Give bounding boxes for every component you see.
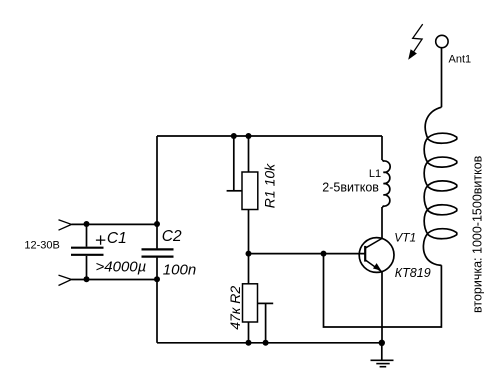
svg-text:L1: L1	[369, 168, 381, 180]
lightning bolt	[411, 24, 423, 56]
capacitor C1 bottom plate	[71, 254, 104, 256]
wire antenna lead	[441, 48, 443, 107]
inductor L1	[382, 160, 390, 207]
transistor VT1 emitter arrow	[373, 263, 381, 271]
svg-text:>4000µ: >4000µ	[96, 258, 147, 275]
transistor VT1 emitter diagonal	[365, 260, 382, 272]
svg-text:C2: C2	[162, 228, 182, 245]
svg-text:100n: 100n	[163, 262, 196, 279]
wire L1 to collector	[381, 207, 383, 238]
junction dot R1 wiper top	[231, 133, 237, 139]
svg-text:2-5витков: 2-5витков	[322, 181, 379, 195]
resistor R1 wiper horizontal	[227, 190, 242, 192]
resistor R2 wire bottom	[248, 322, 250, 343]
junction dot input bottom left	[84, 276, 90, 282]
svg-text:VT1: VT1	[394, 230, 416, 244]
wire base branch down, across, up to secondary bottom	[324, 254, 442, 327]
ground symbol	[371, 359, 394, 361]
input terminal arrow bottom	[59, 275, 72, 285]
junction dot input top left	[84, 221, 90, 227]
junction dot R1 top	[246, 133, 252, 139]
resistor R2 body	[243, 284, 258, 322]
wire left rail upper (to C2 top plate)	[156, 136, 158, 248]
capacitor C2 bottom plate	[142, 256, 174, 258]
svg-text:вторичка: 1000-1500витков: вторичка: 1000-1500витков	[470, 155, 484, 313]
resistor R1 wire bottom	[248, 210, 250, 254]
wire left rail lower (from C2 bottom plate)	[156, 258, 158, 343]
junction dot emitter/ground	[379, 340, 385, 346]
svg-text:R1 10k: R1 10k	[262, 163, 278, 208]
junction dot base branch	[321, 251, 327, 257]
input terminal arrow top	[59, 220, 72, 230]
transistor VT1 circle	[359, 238, 394, 273]
capacitor C1 wire bottom	[86, 256, 88, 279]
transistor VT1 collector diagonal	[365, 238, 382, 248]
wire emitter to bottom rail	[381, 272, 383, 343]
svg-text:47к R2: 47к R2	[227, 286, 243, 330]
junction dot R2 wiper bottom	[263, 340, 269, 346]
capacitor C1 wire top	[86, 224, 88, 247]
junction dot R2 bottom	[246, 340, 252, 346]
resistor R2 wire top	[248, 254, 250, 284]
resistor R1 body	[242, 172, 258, 210]
capacitor C1 top plate	[71, 247, 104, 249]
svg-text:Ant1: Ant1	[449, 54, 472, 66]
junction dot mid R1/R2	[246, 251, 252, 257]
wire bottom rail	[157, 342, 382, 344]
resistor R2 wiper vertical	[265, 303, 267, 342]
resistor R2 wiper horizontal	[258, 302, 274, 304]
wire mid horizontal (R1/R2 junction to base)	[249, 253, 366, 255]
transistor VT1 base bar	[364, 246, 366, 262]
svg-text:C1: C1	[107, 230, 127, 247]
wire ground stub	[381, 343, 383, 361]
resistor R1 wire top	[248, 136, 250, 172]
svg-text:КТ819: КТ819	[395, 266, 431, 280]
capacitor C1 plus sign	[96, 235, 105, 244]
junction dot rail bottom stub	[154, 276, 160, 282]
inductor L2 secondary coil	[423, 107, 456, 265]
junction dot rail top stub	[154, 221, 160, 227]
wire top rail	[157, 135, 382, 137]
wire input stub top	[72, 223, 158, 225]
resistor R1 wiper vertical	[233, 136, 235, 191]
svg-text:12-30В: 12-30В	[24, 239, 59, 251]
wire right vertical from top rail corner to L1	[381, 136, 383, 160]
capacitor C2 top plate	[142, 248, 174, 250]
antenna Ant1 circle	[436, 35, 448, 47]
wire input stub bottom	[72, 279, 158, 281]
